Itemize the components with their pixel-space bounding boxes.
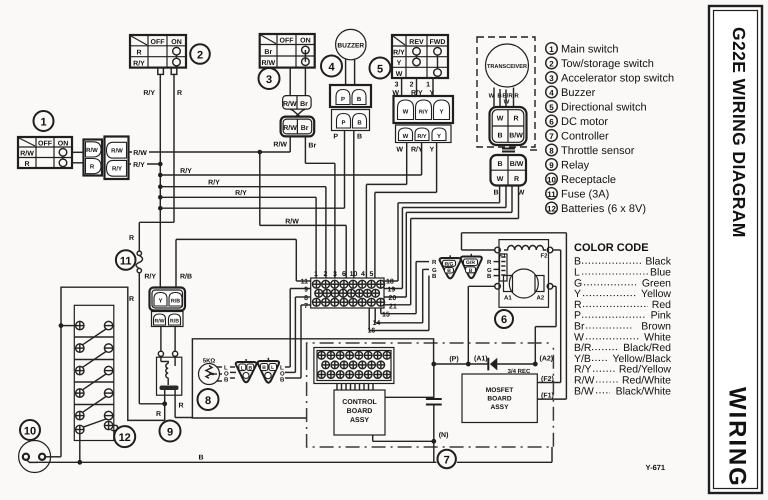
relay connector lower	[152, 312, 184, 327]
svg-text:MOSFET: MOSFET	[486, 387, 513, 394]
relay circled 9	[160, 421, 181, 442]
connector buzzer-A	[330, 85, 371, 107]
svg-text:B: B	[357, 96, 362, 103]
svg-text:F1: F1	[499, 253, 507, 260]
svg-text:L: L	[241, 365, 244, 371]
SW5 lower labels	[396, 146, 434, 154]
svg-text:B: B	[469, 268, 473, 274]
svg-text:R/Y: R/Y	[144, 273, 156, 281]
grid to control board pins hatch	[337, 384, 373, 391]
control board assy box	[334, 390, 385, 435]
svg-text:8: 8	[549, 147, 554, 156]
svg-text:R/W: R/W	[154, 319, 164, 325]
svg-text:9: 9	[304, 287, 308, 294]
transceiver mating hatch	[502, 149, 537, 152]
svg-text:O: O	[224, 371, 229, 378]
wire buzzer to connector (double lead)	[345, 59, 347, 86]
junction dot RW x SW3	[258, 150, 263, 155]
svg-text:R/W: R/W	[111, 148, 123, 155]
wire transceiver B/W to pin19	[384, 186, 506, 289]
transceiver wire labels W B B/R W	[489, 88, 520, 108]
svg-text:Tow/storage switch: Tow/storage switch	[561, 58, 654, 70]
svg-text:B: B	[280, 377, 285, 384]
svg-text:DC motor: DC motor	[561, 116, 608, 128]
svg-text:Batteries (6 x 8V): Batteries (6 x 8V)	[561, 203, 646, 215]
svg-text:R/G: R/G	[445, 261, 454, 267]
sensor wire labels L O B left	[224, 365, 236, 384]
relay box	[157, 357, 182, 395]
svg-text:COLOR CODE: COLOR CODE	[574, 242, 649, 254]
svg-text:R/W: R/W	[285, 217, 299, 225]
controller dash-dot enclosure	[307, 343, 554, 447]
svg-text:R/Y: R/Y	[143, 89, 155, 97]
svg-text:R/W: R/W	[86, 147, 98, 154]
DC motor box	[499, 240, 549, 308]
svg-text:3: 3	[549, 74, 554, 83]
buzzer circled 4	[321, 56, 342, 77]
svg-text:R: R	[24, 161, 29, 168]
svg-text:R: R	[177, 90, 182, 97]
receptacle circled 10	[20, 420, 40, 440]
svg-text:5: 5	[549, 103, 554, 112]
wire R/W junction down and right to pin6	[260, 152, 346, 278]
pin numbers left side	[301, 279, 309, 311]
svg-text:B: B	[198, 454, 203, 461]
capacitor	[426, 364, 442, 441]
wire pin11 to relay R/B	[176, 239, 311, 288]
fuse 3A symbol	[136, 251, 142, 273]
svg-text:TRANSCEIVER: TRANSCEIVER	[487, 64, 527, 70]
svg-text:Y: Y	[397, 60, 402, 67]
svg-text:R/B: R/B	[171, 299, 180, 305]
wire B buzzer to pin10	[354, 131, 362, 279]
svg-text:(A1): (A1)	[474, 355, 488, 363]
svg-text:R: R	[514, 176, 519, 183]
svg-text:10: 10	[24, 426, 36, 438]
svg-text:R: R	[179, 403, 184, 410]
legend list	[546, 43, 674, 215]
svg-text:W: W	[403, 133, 409, 140]
B ground line bottom	[36, 447, 552, 465]
svg-text:11: 11	[547, 190, 556, 199]
svg-text:B: B	[357, 134, 362, 141]
svg-text:A1: A1	[504, 295, 512, 302]
svg-text:2: 2	[410, 82, 414, 89]
wire R/W from SW3 to junction	[273, 136, 290, 152]
svg-text:R: R	[129, 296, 134, 303]
wire relay bottom right	[175, 395, 192, 417]
motor sensor triangle connector 2	[461, 254, 482, 278]
svg-text:P: P	[333, 134, 338, 141]
svg-text:3: 3	[266, 74, 272, 86]
svg-text:Buzzer: Buzzer	[561, 87, 596, 99]
motor armature	[504, 269, 545, 302]
wire control board to node N	[373, 435, 434, 441]
battery terminals and series links	[76, 321, 118, 433]
svg-text:OFF: OFF	[38, 141, 53, 148]
node N	[431, 431, 448, 462]
svg-text:L: L	[271, 365, 274, 371]
svg-text:11: 11	[120, 255, 132, 267]
svg-text:W: W	[497, 116, 504, 123]
svg-text:B: B	[224, 377, 229, 384]
receptacle circle	[19, 441, 51, 473]
svg-text:ON: ON	[58, 141, 69, 148]
wire R/Y from SW2 down (R/Y bus top)	[143, 74, 160, 164]
color code table	[574, 256, 672, 398]
svg-text:7: 7	[444, 455, 450, 467]
svg-text:Y: Y	[439, 109, 443, 116]
accelerator stop switch SW3 table	[260, 34, 315, 68]
svg-text:7: 7	[549, 132, 554, 141]
svg-text:B/R: B/R	[502, 93, 513, 100]
svg-text:G22E WIRING DIAGRAM: G22E WIRING DIAGRAM	[729, 27, 749, 238]
svg-text:BUZZER: BUZZER	[337, 42, 364, 49]
svg-text:R: R	[514, 93, 519, 100]
node P	[431, 355, 458, 366]
svg-text:Throttle sensor: Throttle sensor	[561, 145, 635, 157]
motor sensor wire labels R G B left	[432, 259, 437, 280]
svg-text:9: 9	[167, 427, 173, 439]
svg-text:R/Y: R/Y	[112, 166, 122, 173]
battery circled 12	[114, 426, 135, 447]
R/Y bus vertical with junction dots	[158, 162, 163, 288]
svg-text:Br: Br	[264, 49, 272, 56]
throttle sensor circled 8	[198, 389, 219, 410]
svg-text:(F2): (F2)	[541, 375, 554, 383]
MOSFET board assy box	[462, 374, 537, 423]
svg-text:FWD: FWD	[430, 39, 446, 46]
svg-text:Controller: Controller	[561, 131, 609, 143]
wire transceiver B to pin18	[384, 186, 500, 282]
svg-text:11: 11	[301, 279, 309, 286]
svg-text:R: R	[129, 235, 134, 242]
svg-text:B: B	[493, 190, 498, 197]
connector buzzer-B	[332, 110, 370, 131]
svg-text:R: R	[432, 259, 437, 266]
wire SW1 to connector row2	[72, 162, 84, 164]
wire F2 to node F2	[537, 250, 560, 383]
wire P buzzer to R/Y line5	[333, 131, 344, 209]
wire pin9 to sensor L	[285, 289, 311, 368]
wire R/Y SW5 to bus line	[421, 143, 423, 176]
svg-text:2: 2	[324, 271, 328, 278]
controller circled 7	[438, 450, 456, 468]
svg-text:2: 2	[549, 60, 554, 69]
svg-text:O: O	[280, 371, 285, 378]
svg-text:R/W: R/W	[133, 149, 147, 157]
pin numbers top row	[314, 271, 374, 278]
wires relay connector to relay	[158, 327, 177, 357]
svg-text:Br: Br	[301, 125, 309, 132]
svg-text:ASSY: ASSY	[491, 404, 510, 411]
svg-text:L: L	[280, 365, 284, 372]
wire RW from SW1 connector to junction under SW3	[129, 147, 290, 157]
R/Y R/B labels above relay connector	[144, 273, 192, 281]
wire R/Y line5 to pin6	[160, 207, 344, 209]
svg-text:R/Y: R/Y	[419, 109, 429, 116]
svg-text:W: W	[396, 71, 403, 78]
svg-text:6: 6	[549, 118, 554, 127]
sensor wire labels L O B right	[280, 365, 285, 384]
svg-text:18: 18	[386, 279, 394, 286]
svg-text:F2: F2	[541, 253, 549, 260]
wire RY from SW1 connector to R/Y bus	[129, 159, 160, 169]
svg-text:20: 20	[389, 295, 397, 302]
accelerator stop switch circled 3	[259, 68, 280, 89]
svg-text:Directional switch: Directional switch	[561, 102, 647, 114]
svg-text:5: 5	[377, 64, 383, 76]
svg-text:4: 4	[549, 89, 554, 98]
svg-text:1: 1	[40, 117, 46, 129]
wire R/Y line3 to pin2	[160, 178, 326, 278]
motor sensor wire labels R G B right	[487, 259, 492, 280]
svg-text:ON: ON	[171, 39, 182, 46]
svg-text:Y-671: Y-671	[646, 463, 666, 472]
motor sensor triangle connector 1	[440, 255, 461, 278]
wire R bend to fuse	[129, 222, 174, 251]
svg-text:12: 12	[119, 432, 131, 444]
svg-text:Br: Br	[308, 143, 316, 150]
svg-text:OFF: OFF	[151, 39, 166, 46]
svg-text:R/Y: R/Y	[180, 167, 192, 175]
svg-text:15: 15	[382, 312, 390, 319]
motor internal sensor strip	[500, 254, 508, 281]
svg-text:R: R	[156, 411, 161, 418]
main switch SW1 table	[18, 137, 72, 168]
directional switch circled 5	[370, 58, 391, 79]
wire pin16 to motor sensor B	[369, 276, 429, 331]
svg-text:9: 9	[549, 161, 554, 170]
svg-text:B: B	[357, 120, 362, 127]
svg-text:(F1): (F1)	[541, 392, 554, 400]
svg-text:Receptacle: Receptacle	[561, 174, 616, 186]
svg-text:Fuse (3A): Fuse (3A)	[561, 189, 609, 201]
wires triangles to motor sensor strip	[494, 262, 500, 276]
svg-text:OFF: OFF	[280, 38, 295, 45]
wire node P to node A1	[434, 363, 469, 365]
svg-text:3: 3	[395, 82, 399, 89]
svg-text:R/Y: R/Y	[133, 59, 145, 67]
buzzer circle	[336, 29, 366, 59]
svg-text:Black/White: Black/White	[616, 385, 672, 397]
wire Br from SW3 to pin3	[305, 136, 335, 278]
svg-text:P: P	[341, 96, 345, 103]
motor circled 6	[495, 310, 513, 328]
wire R/Y line2 to directional switch	[160, 166, 421, 175]
svg-text:B: B	[497, 133, 502, 140]
wire transceiver R to pin21	[384, 186, 519, 305]
svg-text:G: G	[487, 267, 492, 274]
wire A1 to node A1	[468, 286, 494, 364]
svg-text:CONTROL: CONTROL	[342, 399, 377, 406]
svg-text:R/Y: R/Y	[235, 189, 247, 197]
svg-text:G: G	[432, 267, 437, 274]
svg-text:B/W: B/W	[574, 385, 594, 397]
svg-text:4: 4	[328, 62, 335, 74]
controller main connector block	[311, 278, 385, 308]
svg-text:R/Y: R/Y	[208, 179, 220, 187]
pin numbers right side	[368, 279, 397, 335]
svg-text:R/W: R/W	[20, 150, 34, 158]
tow switch circled 2	[190, 44, 210, 64]
battery box	[74, 305, 114, 440]
connector SW1-B	[105, 137, 129, 180]
battery outer loop wire	[59, 287, 165, 457]
svg-text:(P): (P)	[449, 355, 458, 363]
connector SW5-A	[394, 96, 454, 123]
svg-text:R: R	[136, 50, 141, 57]
svg-text:B: B	[447, 268, 451, 274]
svg-text:R/Y: R/Y	[133, 161, 145, 169]
transceiver connector upper 2x2	[490, 107, 527, 145]
svg-text:12: 12	[547, 205, 556, 214]
svg-text:(A2): (A2)	[540, 355, 554, 363]
wire control board to capacitor	[385, 396, 434, 398]
wires SW3 down to connector	[290, 68, 305, 96]
svg-text:R/W: R/W	[283, 124, 297, 132]
SW2 tab pins	[158, 68, 177, 75]
svg-text:2: 2	[197, 50, 203, 62]
control board connector grid	[314, 348, 394, 384]
svg-text:Y: Y	[158, 298, 162, 305]
connector SW3-B double shell	[281, 117, 315, 137]
throttle sensor potentiometer 5Kohm	[199, 358, 223, 385]
svg-text:R/W: R/W	[273, 141, 287, 149]
svg-text:R/Y: R/Y	[393, 49, 405, 57]
main switch circled 1	[34, 111, 54, 131]
throttle sensor enclosure and wire to node P	[192, 339, 433, 418]
svg-text:21: 21	[389, 304, 397, 311]
svg-text:WIRING: WIRING	[724, 387, 751, 488]
svg-text:(N): (N)	[439, 431, 449, 439]
wire W SW5 to pin4	[366, 143, 406, 279]
wire battery plus to B line	[79, 434, 81, 463]
svg-text:6: 6	[342, 271, 346, 278]
wire SW1 to connector	[72, 151, 84, 153]
svg-text:R/B: R/B	[170, 319, 179, 325]
svg-text:19: 19	[388, 287, 396, 294]
motor field coil F1-F2	[499, 246, 548, 260]
svg-text:Accelerator stop switch: Accelerator stop switch	[561, 73, 674, 85]
svg-text:BOARD: BOARD	[487, 396, 511, 403]
throttle sensor triangle connector 1	[236, 359, 257, 382]
svg-text:10: 10	[350, 271, 358, 278]
connector SW1-A	[84, 140, 103, 176]
svg-text:R/W: R/W	[261, 59, 275, 67]
svg-text:R/Y: R/Y	[417, 133, 427, 140]
svg-text:P: P	[341, 120, 345, 127]
svg-text:Y: Y	[430, 147, 435, 154]
svg-text:ASSY: ASSY	[350, 417, 369, 424]
svg-text:W: W	[403, 109, 409, 116]
connector SW5-B	[396, 125, 452, 143]
svg-text:Relay: Relay	[561, 160, 590, 172]
svg-text:R/B: R/B	[180, 273, 192, 281]
transceiver circle	[486, 44, 529, 87]
svg-text:R: R	[90, 164, 95, 171]
wire transceiver W to pin20	[384, 186, 512, 298]
svg-text:Main switch: Main switch	[561, 44, 618, 56]
throttle sensor triangle connector 2	[258, 358, 279, 383]
battery cell dividers	[74, 337, 114, 405]
tow/storage switch SW2 table	[130, 35, 186, 68]
svg-text:B: B	[248, 365, 252, 371]
svg-text:A2: A2	[537, 295, 545, 302]
svg-text:R: R	[513, 116, 518, 123]
relay connector upper	[150, 288, 186, 311]
wire pin8 to sensor O	[285, 297, 311, 372]
svg-text:R: R	[487, 259, 492, 266]
SW5 pin numbers and stub labels	[392, 78, 434, 97]
svg-text:7: 7	[304, 303, 308, 310]
svg-text:B: B	[432, 273, 437, 280]
svg-text:B/W: B/W	[509, 132, 523, 140]
svg-text:B: B	[497, 161, 502, 168]
svg-text:1: 1	[314, 271, 318, 278]
directional switch SW5 table	[392, 35, 448, 78]
wire Y SW5 to pin5	[375, 143, 437, 279]
svg-text:Br: Br	[300, 101, 308, 108]
svg-text:8: 8	[304, 295, 308, 302]
transceiver dashed enclosure	[477, 37, 535, 147]
wire fuse down to relay junction	[129, 273, 165, 404]
svg-text:L: L	[224, 365, 228, 372]
svg-text:B: B	[262, 365, 266, 371]
svg-text:1: 1	[426, 82, 430, 89]
svg-text:W: W	[396, 147, 403, 154]
X crossover wires	[290, 109, 305, 117]
sidebar frame	[709, 6, 762, 493]
svg-text:ON: ON	[300, 38, 311, 45]
svg-text:10: 10	[547, 176, 556, 185]
wire receptacle to loop	[45, 456, 61, 458]
svg-text:W: W	[497, 176, 504, 183]
wire pin15 to motor sensor R	[381, 262, 429, 314]
node A1	[466, 355, 488, 367]
svg-text:G/R: G/R	[466, 260, 475, 266]
wire pin14 to motor sensor G	[375, 269, 429, 322]
wire relay bottom left to junction	[156, 395, 167, 420]
svg-text:4: 4	[361, 271, 365, 278]
svg-text:8: 8	[205, 395, 211, 407]
wire R/Y line4 to pin1	[160, 188, 316, 278]
svg-text:REV: REV	[409, 39, 424, 46]
wire pin7 to sensor B	[285, 305, 311, 378]
svg-text:B: B	[487, 273, 492, 280]
motor terminals	[495, 247, 553, 289]
wire R from SW2 down to fuse bend	[174, 74, 182, 222]
connector SW3-A	[283, 96, 312, 110]
svg-text:BOARD: BOARD	[347, 408, 373, 415]
svg-text:1: 1	[549, 45, 554, 54]
svg-text:5: 5	[370, 271, 374, 278]
svg-text:Y: Y	[437, 133, 441, 140]
svg-text:6: 6	[501, 314, 507, 326]
svg-text:R/W: R/W	[283, 100, 297, 108]
diode 3/4 REC	[468, 358, 535, 375]
transceiver connector lower 2x2	[491, 155, 527, 186]
node A2	[533, 355, 553, 367]
wire A2 to node A2	[535, 286, 556, 364]
svg-text:B/W: B/W	[510, 160, 524, 168]
fuse circled 11	[116, 250, 136, 270]
transceiver lower labels	[493, 190, 524, 197]
svg-text:3: 3	[333, 271, 337, 278]
wire F1 loop to node F1	[462, 233, 567, 399]
